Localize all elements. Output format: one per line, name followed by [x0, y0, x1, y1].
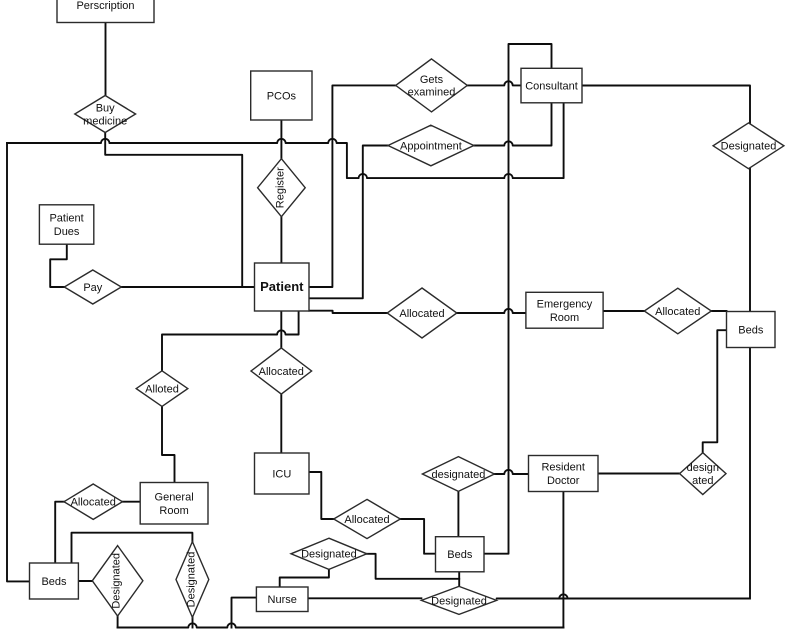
- wire DesignatedV2 to bottom bus: [192, 617, 194, 627]
- svg-text:Designated: Designated: [431, 595, 487, 607]
- wire long bus y143 to Consultant (hops at 105,281,332 / 363,508): [7, 103, 564, 178]
- wire Alloted to GeneralRoom: [162, 406, 175, 482]
- relationship Designated bottom right: [421, 586, 496, 614]
- wire Register to Patient: [280, 217, 282, 263]
- relationship designated RD: [422, 457, 494, 492]
- relationship Designated vertical 1: [92, 546, 143, 616]
- svg-text:Room: Room: [550, 312, 579, 324]
- wire left vertical to Beds: [7, 143, 30, 581]
- relationship design ated: [680, 453, 726, 495]
- svg-text:Allocated: Allocated: [655, 306, 700, 318]
- svg-text:Perscription: Perscription: [76, 0, 134, 12]
- svg-text:design: design: [687, 462, 719, 474]
- wire GetsExamined to Patient: [309, 85, 396, 287]
- wire Allocated-ER to EmergencyRoom: [457, 309, 526, 313]
- relationship Designated vertical 2: [176, 542, 209, 618]
- relationship Allocated GeneralRoom-Beds: [64, 484, 122, 519]
- relationship Allocated ER-Beds: [644, 288, 711, 334]
- svg-text:Alloted: Alloted: [145, 384, 179, 396]
- svg-text:Consultant: Consultant: [525, 81, 578, 93]
- svg-text:Resident: Resident: [541, 462, 584, 474]
- relationship Alloted: [136, 371, 188, 407]
- svg-text:ated: ated: [692, 475, 713, 487]
- relationship Register: [258, 159, 306, 217]
- relationship Gets examined: [396, 59, 468, 112]
- svg-text:PCOs: PCOs: [267, 90, 297, 102]
- wire Beds-right to design-ated: [703, 330, 727, 453]
- wire Beds-left to DesignatedV2: [72, 533, 193, 563]
- entity Beds right: [727, 312, 776, 348]
- relationship Allocated Patient-ICU: [251, 348, 312, 394]
- entity General Room: [140, 483, 208, 525]
- entity Nurse: [256, 587, 308, 612]
- wire Designated-right to Beds-right: [749, 169, 751, 312]
- entity Patient Dues: [39, 205, 93, 244]
- svg-text:Designated: Designated: [301, 549, 357, 561]
- wire Patient to Allocated-ER: [309, 311, 387, 313]
- relationship Buy medicine: [75, 96, 136, 133]
- entity PCOs: [251, 71, 312, 120]
- svg-text:Allocated: Allocated: [399, 308, 444, 320]
- wire bottom bus: [118, 623, 564, 627]
- entity Perscription: [57, 0, 154, 23]
- svg-text:Room: Room: [159, 505, 188, 517]
- wire Beds-center to Designated-BR: [458, 572, 460, 587]
- relationship Designated right: [713, 123, 784, 169]
- wire ICU to Allocated-beds2: [309, 472, 334, 519]
- svg-text:Appointment: Appointment: [400, 140, 462, 152]
- wire DesignatedV1 to bottom bus: [117, 616, 119, 628]
- svg-text:Beds: Beds: [447, 549, 473, 561]
- entity Beds left: [30, 563, 79, 599]
- svg-text:Designated: Designated: [111, 553, 123, 609]
- svg-text:Doctor: Doctor: [547, 475, 580, 487]
- svg-text:Pay: Pay: [83, 282, 102, 294]
- wire Allocated-GR to Beds-left: [55, 502, 64, 563]
- entity Resident Doctor: [529, 456, 599, 492]
- svg-text:Allocated: Allocated: [344, 514, 389, 526]
- svg-text:Allocated: Allocated: [259, 366, 304, 378]
- wire Allocated-beds2 to Beds-center: [400, 519, 435, 554]
- svg-text:Beds: Beds: [41, 576, 67, 588]
- wire designated to ResidentDoctor: [494, 470, 528, 474]
- relationship Allocated ICU-Beds: [334, 499, 401, 538]
- wire Patient to Alloted: [162, 311, 299, 371]
- wire design-ated to ResidentDoctor: [598, 473, 680, 475]
- relationship Pay: [64, 270, 121, 304]
- wire Consultant loop tall vertical to Beds: [484, 44, 552, 554]
- entity Beds center: [436, 537, 485, 572]
- wire designated to Beds-center: [457, 491, 459, 536]
- wire ResidentDoctor to bottom bus: [562, 492, 564, 628]
- svg-text:Allocated: Allocated: [71, 497, 116, 509]
- entity ICU: [255, 453, 310, 494]
- wire PatientDues to Pay: [50, 244, 67, 287]
- relationship Appointment: [388, 125, 474, 166]
- wire Nurse to bottom bus: [232, 598, 257, 628]
- wire Designated-nurse to Nurse: [280, 569, 329, 587]
- entity Patient: [255, 263, 310, 311]
- wire EmergencyRoom to Allocated-Beds: [603, 310, 644, 312]
- wire PCOs to Register: [280, 120, 282, 159]
- svg-text:Designated: Designated: [185, 552, 197, 608]
- svg-text:Buy: Buy: [96, 103, 115, 115]
- wire Nurse to Designated-BR: [308, 597, 421, 599]
- wire Appointment to Consultant: [474, 103, 552, 146]
- wire Pay to Patient: [121, 286, 254, 288]
- svg-text:ICU: ICU: [272, 468, 291, 480]
- relationship Designated Nurse: [291, 538, 367, 569]
- svg-text:Emergency: Emergency: [537, 298, 593, 310]
- relationship Allocated Patient-ER: [387, 288, 457, 338]
- wire GetsExamined to Consultant: [467, 81, 521, 85]
- wire Perscription to Buy-medicine: [105, 0, 107, 96]
- entity Emergency Room: [526, 292, 603, 328]
- wire Designated-nurse tee: [367, 554, 459, 579]
- wire Consultant to Designated-right: [582, 86, 750, 123]
- svg-text:examined: examined: [408, 87, 456, 99]
- entity Consultant: [521, 68, 582, 103]
- wire Beds-left to DesignatedV1: [78, 580, 92, 582]
- svg-text:Beds: Beds: [738, 324, 764, 336]
- svg-text:Patient: Patient: [260, 279, 304, 294]
- wire Allocated-ICU to ICU: [280, 394, 282, 453]
- svg-text:medicine: medicine: [83, 115, 127, 127]
- svg-text:General: General: [155, 491, 194, 503]
- wire Allocated-Beds to Beds-right: [711, 310, 726, 312]
- wire Appointment to Patient: [309, 146, 388, 299]
- svg-text:Nurse: Nurse: [268, 594, 297, 606]
- svg-text:Gets: Gets: [420, 74, 444, 86]
- wire GeneralRoom to Allocated-GR: [122, 501, 140, 503]
- wire Patient to Allocated-ICU: [280, 311, 282, 348]
- svg-text:designated: designated: [431, 469, 485, 481]
- svg-text:Designated: Designated: [721, 141, 777, 153]
- svg-text:Patient: Patient: [49, 213, 83, 225]
- wire Buy-medicine elbow down: [105, 133, 242, 288]
- svg-text:Register: Register: [274, 167, 286, 208]
- svg-text:Dues: Dues: [54, 226, 80, 238]
- wire Beds-right to Designated-BR: [497, 348, 750, 599]
